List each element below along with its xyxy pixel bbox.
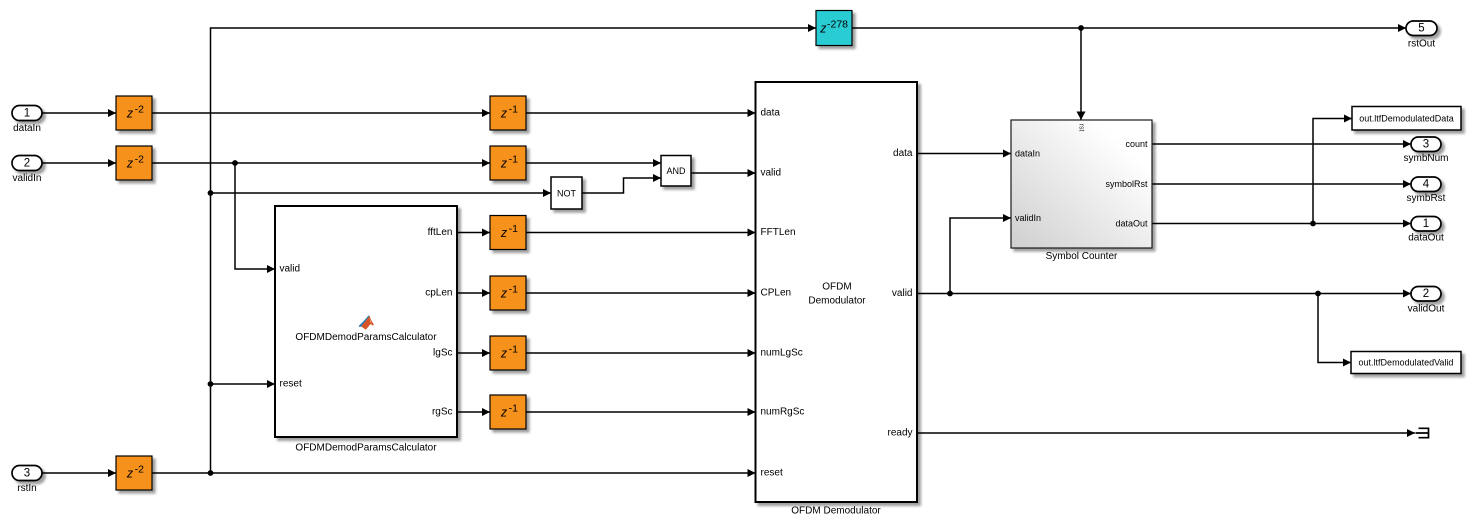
svg-text:CPLen: CPLen [761, 288, 792, 299]
wire NOT to AND input2 [582, 174, 661, 193]
wire symbol counter symbolRst to symbRst port [1152, 180, 1411, 188]
svg-text:count: count [1125, 139, 1148, 149]
svg-text:-1: -1 [509, 103, 518, 115]
svg-text:lgSc: lgSc [433, 348, 452, 359]
delay Z1 z^-2 [116, 96, 152, 130]
wire delay Z1 to delay Z4 [152, 109, 490, 117]
svg-text:3: 3 [24, 468, 30, 480]
svg-text:symbolRst: symbolRst [1105, 179, 1148, 189]
svg-text:1: 1 [1423, 218, 1429, 230]
input port 1 dataIn [12, 106, 42, 135]
svg-text:numLgSc: numLgSc [761, 348, 803, 359]
svg-text:out.ltfDemodulatedValid: out.ltfDemodulatedValid [1359, 358, 1454, 368]
wire rst vertical trunk [211, 24, 817, 473]
wire delay Z5 to AND input1 [526, 159, 661, 167]
junction valid branch [232, 160, 238, 166]
wire symbol counter dataOut to dataOut port [1152, 220, 1411, 228]
svg-text:fftLen: fftLen [428, 227, 453, 238]
goto box out.ltfDemodulatedValid [1351, 352, 1461, 374]
wire rst drop into symbol counter [1077, 28, 1086, 120]
wire validIn port to delay Z2 [42, 159, 116, 167]
svg-text:dataIn: dataIn [1015, 149, 1040, 159]
wire OFDM valid to validOut port [917, 290, 1411, 298]
wire delay Z8 to OFDM numLgSc [526, 349, 756, 357]
junction rstOut to symbol counter rst [1078, 25, 1084, 31]
logic NOT U1 [551, 177, 582, 209]
svg-text:reset: reset [280, 379, 302, 390]
svg-text:z: z [126, 107, 134, 121]
svg-text:valid: valid [892, 288, 913, 299]
wire rst trunk to NOT [211, 189, 552, 197]
delay Z8 z^-1 [490, 336, 526, 370]
svg-text:symbRst: symbRst [1407, 193, 1446, 204]
wire symbol counter count to symbNum port [1152, 140, 1411, 148]
delay Z6 z^-1 [490, 216, 526, 250]
svg-text:z: z [126, 467, 134, 481]
wire delay Z9 to OFDM numRgSc [526, 408, 756, 416]
svg-text:dataOut: dataOut [1115, 219, 1148, 229]
svg-text:-2: -2 [135, 463, 144, 475]
svg-text:rstIn: rstIn [17, 483, 36, 494]
svg-text:data: data [893, 148, 913, 159]
svg-text:-1: -1 [509, 402, 518, 414]
wire dataOut branch to goto data box [1313, 115, 1352, 224]
svg-text:valid: valid [761, 168, 782, 179]
svg-text:2: 2 [1423, 288, 1429, 300]
svg-text:-1: -1 [509, 283, 518, 295]
svg-text:5: 5 [1418, 23, 1424, 35]
delay Z3 z^-2 [116, 456, 152, 490]
wire delay Z2 to delay Z5 [152, 159, 490, 167]
wire valid branch to goto valid box [1318, 294, 1351, 367]
wire delay Z4 to OFDM data [526, 109, 756, 117]
svg-text:numRgSc: numRgSc [761, 407, 805, 418]
wire rstIn port to delay Z3 [42, 469, 116, 477]
svg-text:rstOut: rstOut [1408, 39, 1435, 50]
svg-text:validOut: validOut [1408, 304, 1445, 315]
logic AND U2 [661, 156, 691, 187]
svg-text:ready: ready [887, 428, 912, 439]
delay Z278 z^-278 [816, 11, 852, 46]
svg-text:reset: reset [761, 468, 783, 479]
delay Z2 z^-2 [116, 146, 152, 180]
svg-text:4: 4 [1423, 179, 1430, 191]
svg-text:-1: -1 [509, 343, 518, 355]
junction rst trunk on rstIn wire [208, 470, 214, 476]
junction valid to symbol counter validIn [947, 291, 953, 297]
wire params fftLen to delay Z6 [457, 229, 490, 237]
svg-text:validIn: validIn [13, 173, 42, 184]
label Symbol Counter [1046, 251, 1118, 262]
junction rst to params reset [208, 381, 214, 387]
input port 2 validIn [12, 156, 42, 185]
svg-text:Symbol Counter: Symbol Counter [1046, 251, 1118, 262]
wire OFDM data to symbol counter dataIn [917, 150, 1011, 158]
svg-text:validIn: validIn [1015, 213, 1041, 223]
svg-text:2: 2 [24, 158, 30, 170]
svg-text:1: 1 [24, 108, 30, 120]
OFDM Demodulator block U3 [756, 82, 918, 502]
goto box out.ltfDemodulatedData [1352, 107, 1461, 131]
wire params rgSc to delay Z9 [457, 408, 490, 416]
MATLAB function block OFDMDemodParamsCalculator [275, 206, 457, 437]
junction rst to NOT [208, 190, 214, 196]
output port 2 validOut [1408, 287, 1445, 315]
wire dataIn port to delay Z1 [42, 109, 116, 117]
svg-text:-1: -1 [509, 223, 518, 235]
svg-text:data: data [761, 108, 781, 119]
svg-text:symbNum: symbNum [1403, 153, 1448, 164]
svg-text:z: z [500, 107, 508, 121]
svg-text:out.ltfDemodulatedData: out.ltfDemodulatedData [1359, 114, 1454, 124]
svg-text:OFDMDemodParamsCalculator: OFDMDemodParamsCalculator [295, 443, 437, 454]
terminator T1 [1416, 428, 1429, 439]
svg-text:OFDM Demodulator: OFDM Demodulator [791, 506, 881, 517]
output port 4 symbRst [1407, 177, 1446, 204]
svg-text:z: z [500, 226, 508, 240]
wire delay Z278 to rstOut port [852, 24, 1406, 32]
wire valid branch to params valid [235, 163, 275, 273]
wire delay Z6 to OFDM FFTLen [526, 229, 756, 237]
delay Z5 z^-1 [490, 146, 526, 180]
input port 3 rstIn [12, 466, 42, 495]
output port 3 symbNum [1403, 137, 1448, 164]
wire AND to OFDM valid [691, 169, 756, 177]
svg-text:z: z [500, 406, 508, 420]
svg-text:-278: -278 [827, 18, 848, 30]
MATLAB logo icon [359, 315, 374, 330]
svg-text:z: z [500, 347, 508, 361]
svg-text:OFDM: OFDM [822, 282, 851, 293]
wire rst trunk to params reset [211, 380, 276, 388]
svg-text:z: z [500, 287, 508, 301]
svg-text:Demodulator: Demodulator [808, 296, 866, 307]
output port 1 dataOut [1408, 217, 1444, 244]
svg-text:FFTLen: FFTLen [761, 227, 796, 238]
svg-text:OFDMDemodParamsCalculator: OFDMDemodParamsCalculator [295, 332, 437, 343]
wire delay Z3 to OFDM reset [152, 469, 756, 477]
junction dataOut to goto data box [1310, 221, 1316, 227]
wire params cpLen to delay Z7 [457, 289, 490, 297]
svg-text:dataIn: dataIn [13, 123, 41, 134]
svg-text:3: 3 [1423, 139, 1429, 151]
svg-text:-1: -1 [509, 153, 518, 165]
svg-text:z: z [126, 157, 134, 171]
wire params lgSc to delay Z8 [457, 349, 490, 357]
output port 5 rstOut [1406, 21, 1437, 50]
svg-text:-2: -2 [135, 103, 144, 115]
svg-text:dataOut: dataOut [1408, 233, 1444, 244]
svg-text:valid: valid [280, 264, 301, 275]
wire OFDM ready to terminator [917, 429, 1415, 437]
delay Z7 z^-1 [490, 276, 526, 310]
label OFDMDemodParamsCalculator [295, 443, 437, 454]
delay Z9 z^-1 [490, 395, 526, 429]
svg-text:NOT: NOT [557, 189, 577, 199]
svg-text:cpLen: cpLen [425, 288, 452, 299]
Symbol Counter block U4 [1011, 120, 1152, 248]
svg-text:-2: -2 [135, 153, 144, 165]
svg-text:rst: rst [1078, 124, 1085, 132]
wire delay Z7 to OFDM CPLen [526, 289, 756, 297]
delay Z4 z^-1 [490, 96, 526, 130]
svg-text:rgSc: rgSc [432, 407, 453, 418]
junction valid to goto valid box [1315, 291, 1321, 297]
label OFDM Demodulator [791, 506, 881, 517]
svg-text:AND: AND [666, 166, 686, 176]
svg-text:z: z [500, 157, 508, 171]
wire valid branch to symbol counter validIn [950, 214, 1011, 294]
